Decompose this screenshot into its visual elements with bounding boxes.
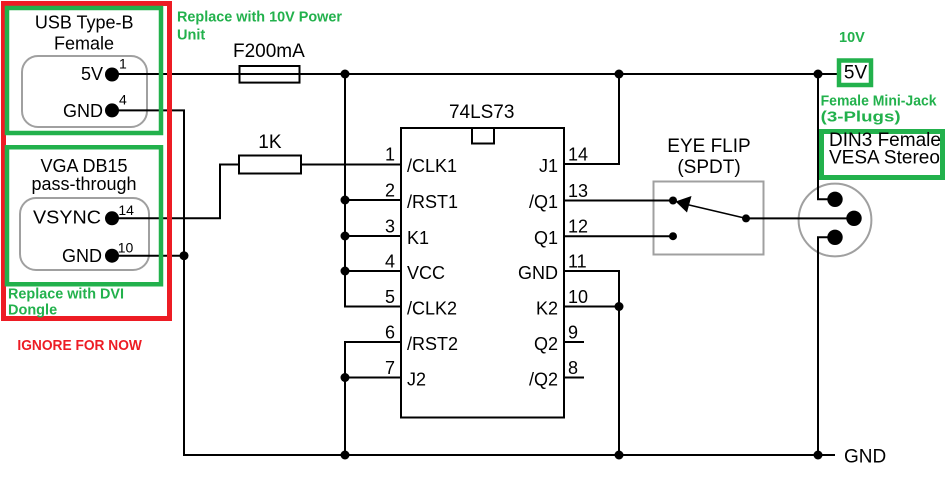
DIN pin middle — [846, 211, 861, 226]
svg-text:/RST2: /RST2 — [407, 334, 458, 354]
wire: switch common to DIN middle pin — [746, 217, 854, 219]
svg-text:14: 14 — [118, 202, 134, 218]
wire: pin 2 stub — [345, 199, 401, 201]
svg-text:F200mA: F200mA — [233, 41, 305, 62]
svg-text:Female Mini-Jack: Female Mini-Jack — [821, 94, 938, 110]
svg-text:USB Type-B: USB Type-B — [35, 12, 134, 32]
svg-text:10: 10 — [568, 287, 588, 307]
svg-text:pass-through: pass-through — [31, 174, 136, 194]
connector J2 DIN3 circle body — [799, 184, 872, 257]
svg-text:14: 14 — [568, 145, 588, 165]
svg-text:GND: GND — [844, 447, 886, 468]
USB Type-B connector body — [22, 56, 147, 127]
svg-text:1: 1 — [385, 145, 395, 165]
VGA DB15 connector body — [20, 198, 149, 270]
annotation red box around connectors — [4, 4, 170, 319]
svg-text:5V: 5V — [844, 63, 868, 84]
svg-text:5V: 5V — [81, 64, 103, 84]
node 5V green box — [839, 61, 871, 86]
svg-text:12: 12 — [568, 217, 588, 237]
junction dot ground bus right — [814, 451, 823, 460]
wire: VGA GND stub — [112, 255, 184, 257]
svg-text:11: 11 — [568, 252, 587, 272]
wire: VSYNC to resistor R1 — [112, 165, 239, 219]
IC U1 74LS73 body — [401, 128, 564, 418]
svg-text:(3-Plugs): (3-Plugs) — [821, 110, 901, 126]
svg-text:10: 10 — [118, 240, 134, 256]
wire: pin 3 stub — [345, 235, 401, 237]
svg-text:Replace with 10V Power: Replace with 10V Power — [177, 10, 342, 26]
wire: USB GND down to ground bus — [112, 110, 835, 455]
svg-text:5: 5 — [385, 287, 395, 307]
VGA VSYNC pin dot — [105, 211, 119, 225]
switch lever — [687, 205, 746, 219]
wire: pin 7 J2 stub — [345, 377, 401, 379]
fuse F1 F200mA — [240, 66, 300, 83]
junction dot pin 3 — [341, 232, 350, 241]
svg-text:(SPDT): (SPDT) — [677, 157, 740, 178]
junction dot pin 10 — [615, 302, 624, 311]
svg-text:2: 2 — [385, 181, 395, 201]
svg-text:K1: K1 — [407, 228, 429, 248]
wire: 5V drop to pins 2,3,4 and /CLK2 pin 5 — [345, 74, 401, 307]
svg-text:/Q2: /Q2 — [529, 370, 558, 390]
junction dot top rail at 5V drop — [341, 70, 350, 79]
wire: pin 6 /RST2 down to ground bus — [345, 342, 401, 455]
junction dot pin 4 — [341, 267, 350, 276]
switch S1 EYE FLIP box — [654, 182, 764, 255]
svg-text:K2: K2 — [536, 299, 558, 319]
svg-text:Q2: Q2 — [534, 334, 558, 354]
svg-text:/Q1: /Q1 — [529, 192, 558, 212]
svg-text:VGA DB15: VGA DB15 — [40, 156, 127, 176]
junction dot pin 7 — [341, 373, 350, 382]
DIN pin top — [827, 192, 842, 207]
DIN pin bottom — [827, 230, 842, 245]
wire: pin 4 stub — [345, 270, 401, 272]
svg-text:Unit: Unit — [177, 28, 205, 44]
USB GND pin dot — [105, 103, 119, 117]
svg-text:VESA Stereo: VESA Stereo — [829, 148, 940, 169]
svg-text:Q1: Q1 — [534, 228, 558, 248]
svg-text:1K: 1K — [258, 132, 282, 153]
switch upper contact — [669, 197, 677, 205]
wire: pin 14 J1 up to 5V rail — [564, 74, 619, 164]
wire: 5V top rail — [112, 73, 837, 75]
svg-text:GND: GND — [63, 101, 103, 121]
wire: pin 12 Q1 to switch — [564, 235, 673, 237]
USB 5V pin dot — [105, 68, 119, 82]
svg-text:IGNORE FOR NOW: IGNORE FOR NOW — [17, 338, 142, 354]
svg-text:3: 3 — [385, 217, 395, 237]
svg-text:9: 9 — [568, 323, 578, 343]
svg-text:/RST1: /RST1 — [407, 192, 458, 212]
svg-text:6: 6 — [385, 323, 395, 343]
svg-text:VCC: VCC — [407, 263, 445, 283]
svg-text:Replace with DVI: Replace with DVI — [8, 286, 124, 302]
svg-text:10V: 10V — [839, 30, 865, 46]
wire: pin 8 /Q2 stub — [564, 377, 584, 379]
svg-text:VSYNC: VSYNC — [33, 208, 101, 228]
svg-text:Female: Female — [54, 34, 114, 54]
svg-text:/CLK1: /CLK1 — [407, 156, 457, 176]
wire: resistor to pin 1 — [301, 164, 401, 166]
svg-text:Dongle: Dongle — [8, 302, 57, 318]
IC U1 notch — [472, 128, 494, 144]
wire: pin 11 GND down to ground bus — [564, 271, 619, 455]
svg-text:8: 8 — [568, 358, 578, 378]
junction dot top rail at DIN riser — [814, 70, 823, 79]
switch common contact — [742, 214, 750, 222]
switch lower contact — [669, 232, 677, 240]
switch lever arrow — [676, 196, 692, 213]
svg-text:74LS73: 74LS73 — [449, 102, 515, 123]
svg-text:7: 7 — [385, 358, 395, 378]
svg-text:4: 4 — [385, 252, 395, 272]
junction dot ground bus left — [341, 451, 350, 460]
annotation green box VGA — [7, 147, 161, 284]
annotation green box USB — [7, 8, 161, 133]
wire: DIN bottom pin to ground bus — [818, 237, 835, 455]
svg-text:J2: J2 — [407, 370, 426, 390]
svg-text:J1: J1 — [539, 156, 558, 176]
svg-text:EYE FLIP: EYE FLIP — [667, 136, 750, 157]
wire: DIN top pin to 5V rail — [818, 74, 835, 199]
wire: pin 10 K2 stub to ground riser — [564, 306, 619, 308]
resistor R1 1K — [239, 156, 301, 174]
junction dot ground bus middle — [615, 451, 624, 460]
svg-text:13: 13 — [568, 181, 588, 201]
svg-text:GND: GND — [518, 263, 558, 283]
junction dot pin 2 — [341, 196, 350, 205]
junction on GND drop — [180, 251, 189, 260]
junction dot top rail at J1 riser — [615, 70, 624, 79]
wire: pin 13 /Q1 to switch — [564, 200, 673, 202]
wire: pin 9 Q2 stub — [564, 341, 584, 343]
svg-text:GND: GND — [62, 246, 102, 266]
svg-text:1: 1 — [119, 56, 127, 72]
annotation green box DIN3 — [822, 132, 943, 178]
VGA GND pin dot — [105, 249, 119, 263]
svg-text:/CLK2: /CLK2 — [407, 299, 457, 319]
svg-text:4: 4 — [119, 91, 127, 107]
